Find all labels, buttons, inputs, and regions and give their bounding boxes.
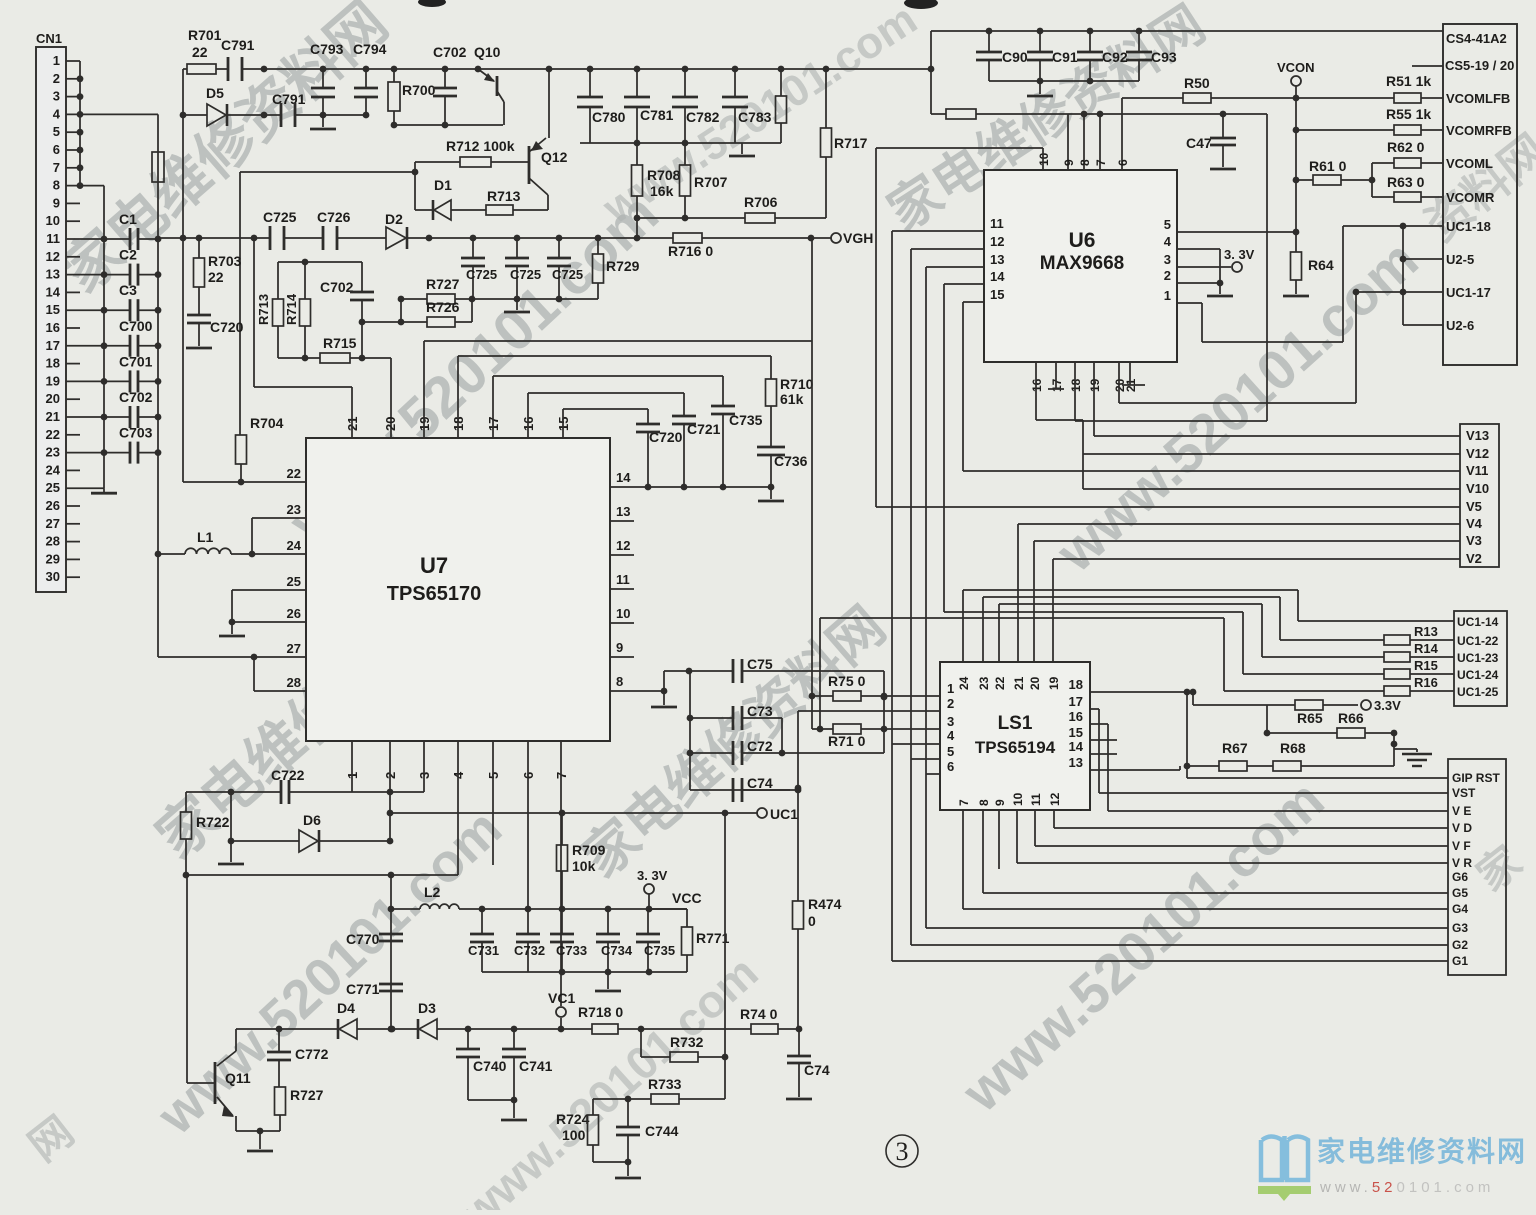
svg-text:22: 22: [192, 44, 208, 60]
svg-text:TPS65170: TPS65170: [387, 583, 482, 605]
svg-text:29: 29: [46, 551, 60, 566]
svg-text:2: 2: [1164, 268, 1171, 283]
svg-text:3. 3V: 3. 3V: [637, 868, 668, 883]
svg-text:4: 4: [947, 728, 955, 743]
wire U6 pin1 to UC1-18 chain: [1177, 302, 1202, 304]
svg-text:22: 22: [993, 676, 1007, 690]
wire LS1 pin10 to VR: [1016, 810, 1018, 863]
svg-text:UC1-25: UC1-25: [1457, 685, 1499, 699]
svg-text:R713: R713: [487, 188, 521, 204]
ground under C744: [627, 1162, 629, 1176]
svg-text:R718 0: R718 0: [578, 1004, 623, 1020]
svg-text:R710: R710: [780, 376, 814, 392]
svg-text:17: 17: [1069, 694, 1083, 709]
svg-text:L2: L2: [424, 884, 441, 900]
svg-text:C793: C793: [310, 41, 344, 57]
svg-text:C92: C92: [1102, 49, 1128, 65]
svg-text:UC1-22: UC1-22: [1457, 634, 1499, 648]
svg-text:23: 23: [287, 502, 301, 517]
svg-text:C780: C780: [592, 109, 626, 125]
svg-text:3: 3: [896, 1137, 909, 1166]
svg-text:R13: R13: [1414, 624, 1438, 639]
wire top rail y31: [931, 30, 1443, 32]
logo book icon: [1261, 1136, 1308, 1180]
CN1 pin stubs: [66, 60, 80, 62]
svg-text:28: 28: [46, 534, 60, 549]
ground under C91: [1039, 81, 1041, 94]
svg-text:24: 24: [46, 462, 61, 477]
wire U2-6 row: [1403, 324, 1443, 326]
svg-text:3: 3: [53, 89, 60, 104]
svg-text:19: 19: [1047, 676, 1061, 690]
svg-text:8: 8: [1078, 159, 1092, 166]
svg-text:C75: C75: [747, 656, 773, 672]
svg-text:D5: D5: [206, 85, 224, 101]
wire to R704 top: [239, 172, 241, 435]
svg-text:C702: C702: [433, 44, 467, 60]
svg-text:C783: C783: [738, 109, 772, 125]
svg-text:12: 12: [1048, 792, 1062, 806]
svg-text:C731: C731: [468, 943, 499, 958]
wire LS1 pin3 row: [884, 728, 940, 730]
svg-text:VC1: VC1: [548, 990, 575, 1006]
ground under C725 bottom row: [516, 299, 518, 310]
svg-text:C791: C791: [272, 91, 306, 107]
wire VCON vertical: [1295, 86, 1297, 252]
svg-text:9: 9: [616, 640, 623, 655]
wire rail x157 down to pin27: [158, 656, 254, 658]
wire LS1 pin8 to G5: [982, 810, 984, 893]
svg-text:6: 6: [53, 142, 60, 157]
svg-text:61k: 61k: [780, 391, 804, 407]
wire R16 feed line: [1223, 618, 1225, 691]
wire C90-93 bottom rail: [989, 80, 1139, 82]
svg-text:R726: R726: [426, 299, 460, 315]
svg-text:C770: C770: [346, 931, 380, 947]
svg-text:R50: R50: [1184, 75, 1210, 91]
svg-text:12: 12: [990, 234, 1004, 249]
svg-text:3: 3: [1164, 252, 1171, 267]
svg-text:R703: R703: [208, 253, 242, 269]
svg-text:R65: R65: [1297, 710, 1323, 726]
svg-text:13: 13: [990, 252, 1004, 267]
svg-text:2: 2: [947, 696, 954, 711]
wire U7 pin21 via row387: [351, 387, 353, 438]
svg-text:22: 22: [287, 466, 301, 481]
wire LS1 pin16 to VE: [1090, 723, 1108, 725]
svg-text:8: 8: [616, 674, 623, 689]
svg-text:C93: C93: [1151, 49, 1177, 65]
wire row875 to U7 pin4: [186, 874, 458, 876]
svg-text:18: 18: [46, 356, 60, 371]
wire x1403 vertical: [1402, 226, 1404, 325]
wire U7 pin15 rail409 to C720: [562, 409, 564, 438]
svg-text:20: 20: [1028, 676, 1042, 690]
svg-text:C725: C725: [466, 267, 497, 282]
svg-text:7: 7: [1094, 159, 1108, 166]
wire rail y114: [931, 113, 946, 115]
svg-text:30: 30: [46, 569, 60, 584]
svg-text:27: 27: [287, 641, 301, 656]
svg-text:L1: L1: [197, 529, 214, 545]
svg-text:C1: C1: [119, 211, 137, 227]
ground under C793 row: [322, 115, 324, 127]
wire LS1 pin2 row to R474 line: [798, 710, 940, 712]
svg-text:26: 26: [46, 498, 60, 513]
svg-text:C734: C734: [601, 943, 633, 958]
svg-text:R701: R701: [188, 27, 222, 43]
wire U6 pin17 stub: [1055, 362, 1057, 389]
wire R712 left jog: [414, 162, 416, 210]
svg-text:G2: G2: [1452, 938, 1468, 952]
svg-text:VCOML: VCOML: [1446, 156, 1493, 171]
svg-text:VCC: VCC: [672, 890, 702, 906]
wire top rail: [264, 68, 931, 70]
svg-text:C73: C73: [747, 703, 773, 719]
ground under row: [607, 972, 609, 989]
svg-text:C791: C791: [221, 37, 255, 53]
svg-text:CN1: CN1: [36, 31, 62, 46]
svg-text:C47: C47: [1186, 135, 1212, 151]
wire x391 vertical L2 branch: [390, 875, 392, 1029]
svg-text:C74: C74: [747, 775, 773, 791]
svg-text:C741: C741: [519, 1058, 553, 1074]
svg-text:5: 5: [1164, 217, 1171, 232]
svg-text:22: 22: [208, 269, 224, 285]
svg-text:R64: R64: [1308, 257, 1334, 273]
terminal UC1: [757, 808, 767, 818]
scan artifacts top edge: [418, 0, 446, 7]
svg-text:R62 0: R62 0: [1387, 139, 1425, 155]
svg-text:C772: C772: [295, 1046, 329, 1062]
svg-text:8: 8: [53, 178, 60, 193]
wire V10 row from x944 chain: [1083, 488, 1460, 490]
wire LS1 pin15 pin14 stubs: [1090, 739, 1117, 741]
capacitors C1 C2 C3 C700 C701 C702 C703: [104, 238, 130, 240]
svg-text:20: 20: [383, 417, 398, 431]
wire U7 pin6 to VCC row: [527, 741, 529, 909]
terminal VC1: [556, 1007, 566, 1017]
wire LS1 pin13 to R67 row: [1090, 769, 1180, 771]
svg-text:R74 0: R74 0: [740, 1006, 778, 1022]
svg-text:VCOMRFB: VCOMRFB: [1446, 123, 1512, 138]
wire U7 pin16 rail393 to C721: [527, 393, 529, 438]
svg-text:11: 11: [990, 216, 1004, 231]
svg-text:18: 18: [1069, 677, 1083, 692]
wire LS1 pin24 to UC1-14: [962, 590, 964, 662]
svg-text:R700: R700: [402, 82, 436, 98]
svg-text:C700: C700: [119, 318, 153, 334]
svg-text:VCON: VCON: [1277, 60, 1315, 75]
svg-text:15: 15: [1069, 725, 1083, 740]
svg-text:28: 28: [287, 675, 301, 690]
wire LS1 pin23 to R13 UC1-22: [982, 597, 984, 662]
svg-text:V13: V13: [1466, 428, 1489, 443]
svg-text:R717: R717: [834, 135, 868, 151]
svg-text:21: 21: [1012, 676, 1026, 690]
svg-text:C91: C91: [1052, 49, 1078, 65]
svg-text:V E: V E: [1452, 804, 1471, 818]
wire U6 pin21 stub: [1129, 362, 1131, 385]
svg-text:10: 10: [46, 213, 60, 228]
svg-text:MAX9668: MAX9668: [1040, 253, 1125, 274]
svg-text:G5: G5: [1452, 886, 1468, 900]
wire U6 pin12 to G2: [911, 248, 984, 250]
svg-text:24: 24: [957, 676, 971, 690]
wire U6 pin15 to V11: [963, 301, 984, 303]
svg-text:10: 10: [616, 606, 630, 621]
svg-text:R71 0: R71 0: [828, 733, 866, 749]
svg-text:D1: D1: [434, 177, 452, 193]
svg-text:CS5-19 / 20: CS5-19 / 20: [1445, 58, 1514, 73]
svg-text:23: 23: [977, 676, 991, 690]
ground under pin14 row: [770, 487, 772, 499]
resistor unlabeled right of C783: [780, 69, 782, 96]
wire UC1 row: [390, 812, 757, 814]
svg-text:14: 14: [46, 284, 61, 299]
svg-text:G1: G1: [1452, 954, 1468, 968]
svg-text:V2: V2: [1466, 551, 1482, 566]
wire main bottom row 1029: [236, 1028, 338, 1030]
svg-text:C782: C782: [686, 109, 720, 125]
terminal 3.3V right: [1361, 700, 1371, 710]
wire U7 pin23 row: [252, 517, 306, 519]
wire U6 pin14 to UC1-24 chain: [944, 283, 984, 285]
svg-text:6: 6: [947, 759, 954, 774]
wire UC1-18 row: [1343, 225, 1443, 227]
svg-text:R14: R14: [1414, 641, 1439, 656]
svg-text:R66: R66: [1338, 710, 1364, 726]
svg-text:C732: C732: [514, 943, 545, 958]
svg-text:4: 4: [1164, 234, 1172, 249]
wire pin8 up to C75 row: [663, 671, 665, 691]
wire CN1 right cap rail: [157, 114, 159, 657]
svg-text:12: 12: [616, 538, 630, 553]
wire C740 C741 bottom: [468, 1099, 514, 1101]
wire U6 pin11 to G1: [892, 230, 984, 232]
svg-text:R16: R16: [1414, 675, 1438, 690]
svg-text:R722: R722: [196, 814, 230, 830]
wire x725 vertical: [724, 813, 726, 1099]
wire LS1 top pins to V2 V3 V4: [1017, 524, 1019, 662]
wire cap bottom row: [482, 971, 687, 973]
U7 right stub pins 13-9: [610, 520, 634, 522]
svg-text:G4: G4: [1452, 902, 1468, 916]
svg-text:20: 20: [46, 391, 60, 406]
wire top rail junction Q12: [546, 66, 553, 73]
svg-text:5: 5: [53, 124, 60, 139]
svg-text:R15: R15: [1414, 658, 1438, 673]
page number 3 circled: [886, 1135, 918, 1167]
svg-text:R709: R709: [572, 842, 606, 858]
ground at pin8: [663, 691, 665, 705]
capacitors C731 C732 C733 C734 C735: [481, 909, 483, 934]
svg-text:D6: D6: [303, 812, 321, 828]
resistor R702 (unlabeled) on rail: [152, 152, 164, 182]
svg-text:R55 1k: R55 1k: [1386, 106, 1431, 122]
wire vertical x690 cap ladder: [689, 671, 691, 790]
svg-text:CS4-41A2: CS4-41A2: [1446, 31, 1507, 46]
svg-text:V10: V10: [1466, 481, 1489, 496]
wire LS1 pin11 to VF: [1034, 810, 1036, 846]
ground 3bar: [1416, 749, 1418, 752]
svg-text:25: 25: [46, 480, 60, 495]
svg-text:R733: R733: [648, 1076, 682, 1092]
wire LS1 pin18 to GIP RST: [1090, 691, 1187, 693]
svg-text:U2-5: U2-5: [1446, 252, 1474, 267]
svg-text:3.3V: 3.3V: [1374, 698, 1401, 713]
wire U6 pin10 to V5: [1042, 148, 1044, 170]
svg-text:D2: D2: [385, 211, 403, 227]
svg-text:16: 16: [1069, 709, 1083, 724]
wire x884 vertical R75 R71 join: [883, 671, 885, 753]
wire CN1 pins 1-8 bus: [79, 61, 81, 186]
wire tap LS1 pin5: [911, 758, 940, 760]
svg-text:R474: R474: [808, 896, 842, 912]
svg-text:C771: C771: [346, 981, 380, 997]
wire LS1 pin7 to G4: [962, 810, 964, 909]
wire U6 pin6 up: [1121, 98, 1123, 170]
wire CS5 stub: [1412, 65, 1443, 67]
svg-text:26: 26: [287, 606, 301, 621]
svg-text:15: 15: [990, 287, 1004, 302]
wire U7 pin22 row: [183, 481, 306, 483]
svg-text:16: 16: [1030, 378, 1044, 392]
svg-text:V R: V R: [1452, 856, 1472, 870]
svg-text:LS1: LS1: [998, 713, 1033, 734]
svg-text:11: 11: [616, 572, 630, 587]
svg-text:D3: D3: [418, 1000, 436, 1016]
wire VGH vertical x812: [811, 238, 813, 729]
svg-text:R729: R729: [606, 258, 640, 274]
wire U7 pin17 rail376 to C735: [492, 376, 494, 438]
svg-text:C744: C744: [645, 1123, 679, 1139]
wire left vertical x183: [182, 69, 184, 482]
svg-text:C733: C733: [556, 943, 587, 958]
svg-text:UC1: UC1: [770, 806, 798, 822]
svg-text:UC1-23: UC1-23: [1457, 651, 1499, 665]
svg-text:R67: R67: [1222, 740, 1248, 756]
svg-text:V4: V4: [1466, 516, 1483, 531]
svg-text:C702: C702: [119, 389, 153, 405]
wire x931 vertical: [930, 31, 932, 114]
connector CS4-41A2 block: [1443, 24, 1517, 365]
connector GIP block: [1448, 759, 1506, 975]
wire R65 left vertical: [1192, 692, 1194, 705]
svg-text:UC1-14: UC1-14: [1457, 615, 1499, 629]
wire U7 pin7 to VC1: [560, 741, 562, 1006]
svg-text:VCOMLFB: VCOMLFB: [1446, 91, 1510, 106]
svg-text:GIP RST: GIP RST: [1452, 771, 1500, 785]
svg-text:www.520101.com: www.520101.com: [1319, 1179, 1494, 1196]
wire VGH row: [158, 237, 270, 239]
svg-text:1: 1: [1164, 288, 1171, 303]
svg-text:14: 14: [990, 269, 1005, 284]
svg-text:C2: C2: [119, 247, 137, 263]
svg-text:5: 5: [947, 744, 954, 759]
svg-text:13: 13: [1069, 755, 1083, 770]
svg-text:C725: C725: [263, 209, 297, 225]
svg-text:R727: R727: [426, 276, 460, 292]
svg-text:C720: C720: [210, 319, 244, 335]
svg-text:R707: R707: [694, 174, 728, 190]
wire U7 pin18 rail356 to R710: [457, 356, 459, 438]
terminal VGH: [831, 233, 841, 243]
ground below C722 node: [230, 792, 232, 841]
svg-text:R75 0: R75 0: [828, 673, 866, 689]
wire U7 pin8 row: [610, 690, 664, 692]
wire U7 pin19 rail341: [423, 341, 425, 438]
svg-text:V D: V D: [1452, 821, 1472, 835]
svg-text:VCOMR: VCOMR: [1446, 190, 1495, 205]
svg-text:V11: V11: [1466, 463, 1488, 478]
wire U7 pin1 pin2 pin3 row792: [351, 741, 353, 792]
svg-text:R714: R714: [284, 293, 299, 325]
op-amp U6 MAX9668: [984, 170, 1177, 362]
svg-text:V5: V5: [1466, 499, 1482, 514]
svg-text:13: 13: [46, 267, 60, 282]
svg-text:0: 0: [808, 913, 816, 929]
wire tap LS1 pin6: [926, 773, 940, 775]
svg-text:19: 19: [1088, 378, 1102, 392]
svg-text:9: 9: [1062, 159, 1076, 166]
ground at pin26: [231, 622, 233, 634]
svg-text:10: 10: [1037, 152, 1051, 166]
svg-text:G6: G6: [1452, 870, 1468, 884]
svg-text:UC1-24: UC1-24: [1457, 668, 1499, 682]
connector CN1: [36, 47, 66, 592]
wire R715 to U7 pin20: [390, 358, 392, 438]
wire cap bottom rail: [580, 142, 781, 144]
wire U7 pin27 pin28: [251, 654, 258, 661]
svg-text:V3: V3: [1466, 533, 1482, 548]
svg-text:17: 17: [46, 338, 60, 353]
wire LS1 pin17 to VST: [1090, 708, 1099, 710]
svg-text:C726: C726: [317, 209, 351, 225]
wire U6 pin4 pin2 tie: [1177, 248, 1220, 250]
svg-text:17: 17: [1050, 378, 1064, 392]
svg-text:R708: R708: [647, 167, 681, 183]
wire Q11 base from R722 node: [186, 875, 188, 1083]
U7 pin5 pin7 stubs: [492, 741, 494, 865]
svg-text:16: 16: [46, 320, 60, 335]
svg-text:R704: R704: [250, 415, 284, 431]
svg-text:C703: C703: [119, 425, 153, 441]
svg-text:UC1-18: UC1-18: [1446, 219, 1491, 234]
wire VCC row: [459, 908, 687, 910]
svg-text:R716 0: R716 0: [668, 243, 713, 259]
svg-text:D4: D4: [337, 1000, 355, 1016]
wire U6 pin13 to G3: [926, 266, 984, 268]
svg-text:V F: V F: [1452, 839, 1471, 853]
svg-text:C3: C3: [119, 282, 137, 298]
ground under rail: [741, 143, 743, 154]
wire LS1 pin9 stub: [998, 810, 1000, 869]
wire R724 C744 bottom row: [593, 1161, 628, 1163]
wire LS1 pin22 to R14 UC1-23: [998, 604, 1000, 662]
wire UC1-17 row: [1356, 291, 1443, 293]
svg-text:C701: C701: [119, 353, 153, 369]
svg-text:VST: VST: [1452, 786, 1476, 800]
op-amp U7 TPS65170: [306, 438, 610, 741]
svg-text:C735: C735: [644, 943, 675, 958]
svg-text:Q10: Q10: [474, 44, 501, 60]
wire Q10 collector row: [394, 124, 503, 126]
connector UC1 block: [1454, 611, 1507, 706]
ground under C741: [513, 1100, 515, 1118]
svg-text:R706: R706: [744, 194, 778, 210]
svg-text:R715: R715: [323, 335, 357, 351]
